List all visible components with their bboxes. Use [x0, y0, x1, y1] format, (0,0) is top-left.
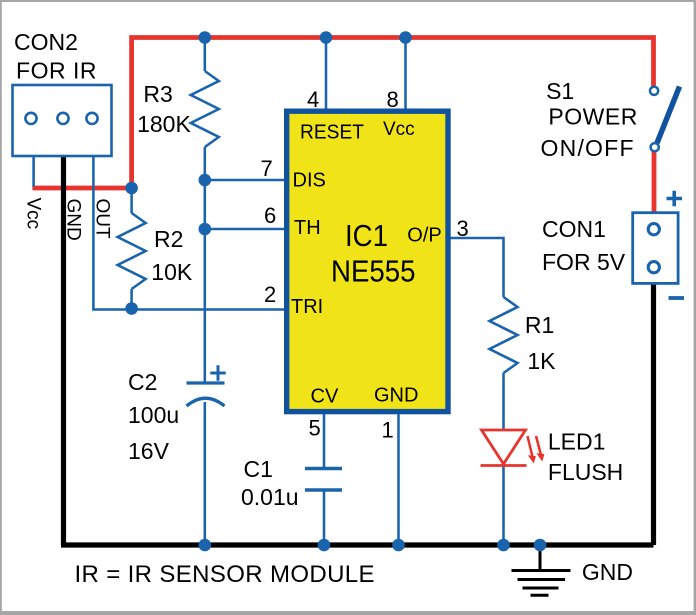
- wire R3 bottom through DIS and TH nodes down to C2: [204, 147, 207, 383]
- svg-text:C1: C1: [244, 456, 273, 482]
- switch S1 blade: [657, 87, 680, 144]
- svg-text:1: 1: [382, 418, 394, 443]
- svg-text:180K: 180K: [137, 111, 191, 137]
- node junction rail-pin1: [392, 539, 405, 552]
- wire pin 1 GND to ground rail: [397, 414, 400, 545]
- svg-text:GND: GND: [582, 559, 633, 585]
- node junction Vcc corner R2: [125, 182, 138, 195]
- svg-text:C2: C2: [128, 369, 157, 395]
- node junction rail-LED: [497, 539, 510, 552]
- wire LED1 cathode to ground rail: [502, 465, 505, 545]
- svg-text:NE555: NE555: [331, 254, 416, 289]
- capacitor C2 curved plate: [187, 398, 225, 406]
- wire pin 5 CV to C1 top: [323, 414, 326, 468]
- node junction rail-pin4: [320, 31, 333, 44]
- wire C2 bottom to ground rail: [204, 402, 207, 545]
- CON1 hole 1: [648, 224, 659, 235]
- svg-text:GND: GND: [63, 199, 84, 241]
- svg-text:10K: 10K: [151, 259, 193, 285]
- svg-text:8: 8: [387, 87, 399, 112]
- svg-text:POWER: POWER: [548, 104, 637, 130]
- node junction rail-R3: [199, 31, 212, 44]
- wire Vcc power rail (red) from CON2 Vcc up and across to switch S1: [32, 38, 653, 189]
- svg-text:ON/OFF: ON/OFF: [541, 135, 634, 161]
- svg-text:6: 6: [264, 203, 276, 228]
- svg-text:R2: R2: [154, 226, 183, 252]
- wire TH pin 6 line: [205, 228, 284, 231]
- capacitor C2 top plate: [187, 381, 225, 384]
- svg-text:S1: S1: [546, 78, 574, 104]
- resistor R2: [118, 213, 146, 289]
- CON1 minus sign: [669, 296, 685, 300]
- svg-text:FOR 5V: FOR 5V: [542, 249, 626, 275]
- svg-text:16V: 16V: [128, 438, 170, 464]
- svg-text:TRI: TRI: [291, 296, 323, 318]
- LED1 cathode bar: [481, 464, 527, 467]
- resistor R3: [191, 71, 219, 147]
- svg-text:O/P: O/P: [407, 225, 441, 247]
- CON1 hole 2: [648, 262, 659, 273]
- capacitor C1 top plate: [305, 467, 342, 471]
- LED1 emission arrow 1: [528, 436, 534, 459]
- svg-text:RESET: RESET: [300, 122, 364, 144]
- svg-text:DIS: DIS: [293, 170, 326, 192]
- IC1 NE555 body: [287, 111, 448, 411]
- node junction DIS: [199, 174, 212, 187]
- ground symbol: [512, 546, 571, 595]
- svg-text:LED1: LED1: [548, 429, 606, 455]
- svg-text:100u: 100u: [128, 402, 179, 428]
- wire R2 bottom to TRI node: [130, 289, 133, 310]
- wire pin 3 output to R1 top: [450, 238, 504, 297]
- svg-text:GND: GND: [374, 385, 418, 407]
- CON1 plus sign: [667, 191, 683, 206]
- node junction rail-C2: [199, 539, 212, 552]
- node junction rail-ground symbol: [534, 539, 547, 552]
- svg-text:R3: R3: [143, 81, 172, 107]
- CON2 pin hole 1: [25, 113, 36, 124]
- svg-text:1K: 1K: [527, 348, 556, 374]
- LED1 emission arrow 2: [536, 436, 542, 457]
- svg-text:Vcc: Vcc: [383, 119, 415, 140]
- wire pin 4 RESET to rail: [325, 38, 328, 110]
- svg-text:CON1: CON1: [542, 216, 606, 242]
- svg-text:FLUSH: FLUSH: [548, 459, 623, 485]
- switch S1 bottom terminal: [651, 143, 659, 151]
- svg-text:IR = IR SENSOR MODULE: IR = IR SENSOR MODULE: [75, 561, 375, 588]
- switch S1 top terminal: [650, 87, 658, 95]
- wire node Vcc junction to R2 top: [130, 190, 133, 213]
- svg-text:IC1: IC1: [345, 218, 388, 253]
- node junction TH: [199, 223, 212, 236]
- svg-text:0.01u: 0.01u: [241, 484, 299, 510]
- svg-text:CV: CV: [311, 386, 339, 408]
- resistor R1: [490, 297, 518, 373]
- svg-text:FOR IR: FOR IR: [16, 58, 97, 84]
- wire C1 bottom to ground rail: [323, 490, 326, 545]
- wire ground path (black): CON2 GND pin down, bottom rail, up right side to CON1 minus: [61, 156, 654, 545]
- wire pin 8 Vcc to rail: [404, 38, 407, 110]
- connector CON2 body: [13, 85, 112, 156]
- svg-text:OUT: OUT: [92, 199, 113, 240]
- wire DIS pin 7 line: [205, 179, 284, 182]
- capacitor C2 plus sign: [210, 365, 225, 380]
- capacitor C1 bottom plate: [305, 488, 342, 492]
- svg-text:R1: R1: [525, 312, 554, 338]
- connector CON1 body: [633, 213, 678, 284]
- wire R1 bottom to LED1 anode: [502, 373, 505, 431]
- svg-text:2: 2: [264, 282, 276, 307]
- CON2 pin hole 2: [57, 113, 68, 124]
- LED1 triangle (anode): [482, 430, 526, 464]
- svg-text:4: 4: [307, 87, 319, 112]
- wire CON2 OUT pin down to TRI line: [93, 156, 284, 310]
- node junction rail-pin8: [399, 31, 412, 44]
- wire CON2 Vcc pin stub: [32, 156, 35, 187]
- node junction rail-C1: [318, 539, 331, 552]
- wire red segment switch S1 to CON1 plus terminal: [652, 152, 657, 215]
- wire rail to R3 top: [204, 38, 207, 71]
- svg-text:7: 7: [261, 156, 273, 181]
- svg-text:3: 3: [457, 216, 469, 241]
- svg-text:CON2: CON2: [14, 29, 78, 55]
- node junction R2-TRI: [125, 302, 138, 315]
- svg-text:Vcc: Vcc: [23, 198, 44, 230]
- svg-text:TH: TH: [294, 217, 321, 239]
- CON2 pin hole 3: [86, 113, 97, 124]
- svg-text:5: 5: [309, 416, 321, 441]
